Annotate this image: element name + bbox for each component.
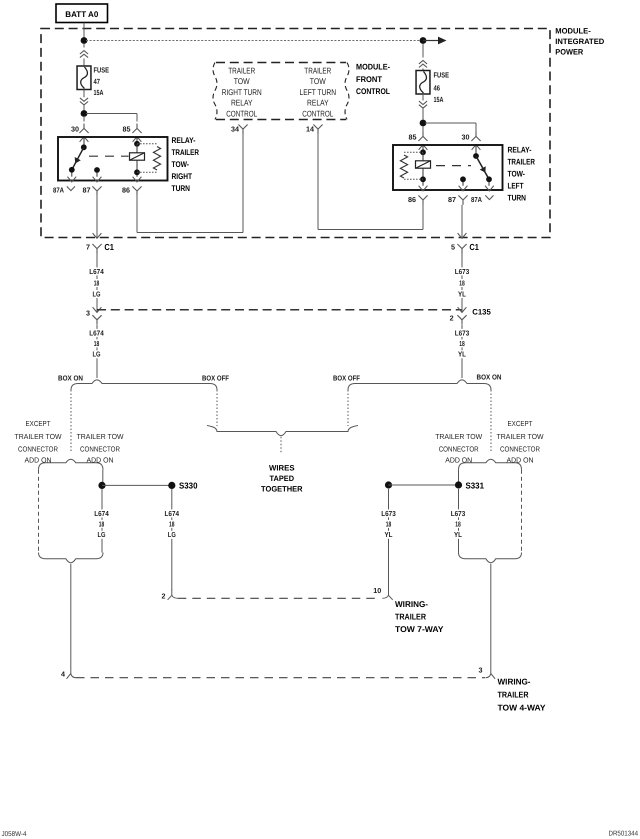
- splice junction dot (left of S331): [385, 481, 392, 488]
- svg-text:TOW-: TOW-: [508, 170, 526, 179]
- relay K2 pin 87 contact dot: [460, 176, 466, 182]
- wire branch BOX ON right dashed: [490, 390, 492, 453]
- relay K2 switch arm with motion arrowhead: [476, 156, 489, 179]
- wire label L673 18 YL (S331 branch): [450, 509, 467, 539]
- wire below fuse 47: [83, 90, 85, 98]
- wire: [83, 105, 85, 113]
- wire split left (BOX ON / BOX OFF branch): [71, 380, 217, 390]
- connector fork C135 cavity 2: [457, 315, 466, 325]
- svg-text:TRAILER: TRAILER: [228, 65, 255, 75]
- svg-text:15A: 15A: [434, 95, 444, 104]
- svg-text:CONNECTOR: CONNECTOR: [439, 445, 479, 454]
- relay K2 body box (trailer tow left turn): [393, 145, 503, 190]
- pin label 86 (left relay): [122, 185, 130, 194]
- node B junction dot: [420, 37, 427, 44]
- wire node A down to fuse 47: [83, 44, 85, 48]
- wire label L673 18 YL (lower right): [454, 328, 471, 358]
- pin 86 exit arrow: [133, 175, 142, 182]
- svg-text:WIRING-: WIRING-: [395, 599, 428, 609]
- wire relay K1 pin 87 down to C1: [96, 196, 98, 238]
- svg-text:2: 2: [450, 313, 454, 322]
- svg-text:L674: L674: [165, 509, 180, 518]
- wire branch BOX OFF left dashed: [216, 390, 218, 426]
- wire node B down to fuse 46: [422, 44, 424, 58]
- svg-text:WIRES: WIRES: [269, 464, 295, 473]
- wire coil bottom: [136, 160, 138, 172]
- svg-text:BOX OFF: BOX OFF: [333, 373, 361, 382]
- svg-text:LG: LG: [98, 530, 106, 539]
- svg-text:TRAILER TOW: TRAILER TOW: [77, 432, 124, 441]
- in-line connector chevrons below fuse 46: [419, 101, 427, 108]
- pin label 3 (4-way): [479, 666, 483, 675]
- fuse F46 symbol: [416, 71, 430, 95]
- svg-text:18: 18: [94, 339, 100, 348]
- svg-text:LEFT: LEFT: [508, 182, 524, 191]
- pin label 7: [86, 242, 90, 251]
- connector label C1 (left): [104, 242, 114, 252]
- wire except-branch dashed (left): [38, 470, 40, 553]
- svg-text:BOX OFF: BOX OFF: [202, 373, 230, 382]
- svg-text:TOW 4-WAY: TOW 4-WAY: [498, 703, 546, 713]
- pin label 86 (right relay): [408, 195, 416, 204]
- label WIRES TAPED TOGETHER: [261, 464, 303, 494]
- node D junction dot below fuse 46: [420, 120, 427, 127]
- svg-text:L674: L674: [94, 509, 109, 518]
- label BOX OFF (left): [202, 373, 230, 382]
- wire branch BOX ON left dashed: [70, 390, 72, 453]
- relay K2 mechanical linkage dashed line: [436, 165, 471, 167]
- connector fork at left relay pin 30: [79, 124, 88, 134]
- pin label 87A (right relay): [471, 195, 482, 204]
- connector fork C1 cavity 7: [92, 244, 101, 254]
- pin 87A exit arrow (right relay): [485, 182, 494, 191]
- connector fork at module-front pin 34: [238, 125, 247, 135]
- relay K1 body box (trailer tow right turn): [58, 137, 168, 181]
- wire to splice S330: [101, 470, 104, 486]
- wire below left splice dot to merge: [101, 489, 103, 553]
- svg-text:YL: YL: [385, 530, 394, 539]
- wire: [422, 108, 424, 120]
- svg-text:FUSE: FUSE: [94, 65, 110, 74]
- connector C135 crossing arrow (left): [93, 305, 102, 313]
- svg-text:L674: L674: [89, 267, 104, 276]
- svg-text:87A: 87A: [471, 195, 482, 204]
- svg-text:POWER: POWER: [555, 48, 583, 57]
- wire branch node D to pin 30 drop: [425, 123, 476, 132]
- fuse F47 symbol: [77, 66, 91, 90]
- splice label S330: [179, 481, 198, 491]
- svg-text:RELAY: RELAY: [231, 98, 253, 108]
- wire: [83, 59, 85, 67]
- svg-text:L673: L673: [455, 328, 470, 337]
- svg-text:18: 18: [94, 278, 100, 287]
- svg-text:RELAY-: RELAY-: [172, 136, 196, 145]
- label MODULE-INTEGRATED POWER: [555, 27, 604, 57]
- splice S330 dot: [168, 482, 175, 489]
- svg-text:87: 87: [448, 195, 456, 204]
- wire right column C1 to C135: [461, 254, 463, 305]
- wire S331 left dot down to 7-way: [388, 489, 390, 590]
- wire label L674 18 LG (splice branch left): [93, 509, 110, 539]
- in-line connector chevrons above fuse 47: [80, 51, 88, 58]
- svg-text:YL: YL: [454, 530, 463, 539]
- svg-text:TOW 7-WAY: TOW 7-WAY: [395, 624, 444, 634]
- wire pin 14 to relay K2 pin 86: [318, 134, 423, 230]
- connector fork at right relay pin 87: [458, 195, 467, 205]
- wire relay K2 pin 87 down to C1: [461, 205, 463, 238]
- splice label S331: [466, 480, 485, 490]
- relay K2 suppression resistor connections: [404, 152, 423, 179]
- svg-text:87: 87: [83, 185, 91, 194]
- node C junction dot below fuse 47: [81, 110, 88, 117]
- pin label 34: [231, 125, 239, 134]
- pin 87 exit arrow: [93, 173, 102, 182]
- svg-text:C135: C135: [472, 308, 491, 317]
- relay K1 mechanical linkage dashed line: [89, 155, 129, 157]
- wire BATT A0 to node A: [83, 23, 85, 41]
- label BOX ON (left): [58, 373, 83, 382]
- pin label 10 (7-way): [373, 586, 381, 595]
- svg-text:L673: L673: [381, 509, 396, 518]
- svg-text:DR501344: DR501344: [609, 831, 639, 838]
- relay K2 switch 87A contact dot: [486, 176, 492, 182]
- connector label C135: [472, 308, 491, 317]
- wire below fuse 46: [422, 94, 424, 101]
- wire merge tail down to 4-way (right): [490, 564, 492, 674]
- svg-text:S331: S331: [466, 480, 485, 490]
- svg-text:WIRING-: WIRING-: [498, 677, 531, 687]
- pin 87 exit arrow (right relay): [459, 182, 468, 191]
- svg-text:YL: YL: [458, 350, 467, 359]
- wire split left lower: [39, 459, 104, 470]
- wire between S331 splice dots: [389, 484, 458, 486]
- wire coil bottom: [422, 168, 424, 179]
- svg-text:S330: S330: [179, 481, 198, 491]
- pin 30 entry arrow into relay: [80, 137, 89, 147]
- pin 86 exit arrow (right relay): [419, 182, 428, 191]
- wire pin 34 to relay K1 pin 86: [137, 134, 243, 233]
- net label TRAILER TOW RIGHT TURN RELAY CONTROL: [222, 65, 262, 118]
- relay K2 coil bottom dot: [420, 176, 426, 182]
- pin label 30 (right relay): [462, 133, 470, 142]
- relay K1 switch 87A contact dot: [69, 167, 75, 173]
- svg-text:87A: 87A: [53, 185, 64, 194]
- svg-text:CONNECTOR: CONNECTOR: [80, 445, 120, 454]
- svg-text:5: 5: [451, 242, 455, 251]
- svg-text:3: 3: [479, 666, 483, 675]
- label EXCEPT TRAILER TOW CONNECTOR ADD ON (right): [497, 419, 544, 465]
- pin label 87A (left relay): [53, 185, 64, 194]
- pin 85 entry arrow into relay: [419, 145, 428, 153]
- pin 87A exit arrow: [67, 173, 76, 182]
- svg-text:LG: LG: [168, 530, 176, 539]
- connector C1 crossing arrow (left): [93, 233, 102, 238]
- pin label 87 (left relay): [83, 185, 91, 194]
- label EXCEPT TRAILER TOW CONNECTOR ADD ON (left): [15, 419, 62, 465]
- wire between splice dots: [102, 484, 170, 486]
- wire fork into 4-way pin 4: [67, 674, 77, 679]
- svg-text:BOX ON: BOX ON: [477, 373, 502, 382]
- svg-text:L673: L673: [455, 267, 470, 276]
- connector fork C1 cavity 5: [457, 244, 466, 254]
- svg-text:L674: L674: [89, 328, 104, 337]
- wire L674 segment C1 to C135: [96, 254, 98, 305]
- svg-text:RELAY-: RELAY-: [508, 146, 532, 155]
- svg-text:TRAILER: TRAILER: [304, 65, 331, 75]
- in-line connector chevrons above fuse 46: [419, 61, 427, 68]
- pin label 30 (left relay): [71, 125, 79, 134]
- svg-text:BATT A0: BATT A0: [65, 10, 98, 19]
- svg-text:J058W-4: J058W-4: [2, 831, 27, 838]
- connector fork at right relay pin 30: [471, 132, 480, 142]
- relay K1 suppression resistor zigzag: [153, 147, 160, 171]
- unconnected chevron at pin 87A (right relay): [485, 195, 493, 199]
- label FUSE 47 15A: [94, 65, 110, 97]
- pin 30 entry arrow into relay: [472, 145, 481, 156]
- connector fork C135 cavity 3: [92, 315, 101, 325]
- label RELAY-TRAILER TOW-LEFT TURN: [508, 146, 536, 203]
- svg-text:TRAILER: TRAILER: [395, 612, 426, 622]
- connector trailer tow 4-way dashed line: [76, 677, 485, 679]
- connector C135 dashed line: [97, 309, 462, 311]
- connector C135 crossing arrow (right): [458, 305, 467, 313]
- pin 85 entry arrow into relay: [133, 137, 142, 144]
- svg-text:CONNECTOR: CONNECTOR: [18, 445, 58, 454]
- wire L674 segment C135 to split: [96, 325, 98, 378]
- svg-text:TRAILER: TRAILER: [498, 690, 529, 700]
- svg-text:TAPED: TAPED: [270, 474, 295, 483]
- svg-text:CONTROL: CONTROL: [356, 87, 390, 96]
- svg-text:TRAILER TOW: TRAILER TOW: [15, 432, 62, 441]
- svg-text:RELAY: RELAY: [307, 98, 329, 108]
- svg-text:86: 86: [408, 195, 416, 204]
- svg-text:34: 34: [231, 125, 239, 134]
- wire merge brace right: [459, 553, 522, 563]
- svg-text:TURN: TURN: [172, 184, 191, 193]
- svg-text:LEFT TURN: LEFT TURN: [300, 87, 337, 97]
- relay K1 switch arm with motion arrowhead: [72, 147, 84, 170]
- pin label 2: [450, 313, 454, 322]
- svg-text:7: 7: [86, 242, 90, 251]
- svg-text:4: 4: [61, 670, 65, 679]
- svg-text:30: 30: [71, 125, 79, 134]
- svg-text:EXCEPT: EXCEPT: [508, 419, 533, 428]
- module-integrated power dashed boundary box: [41, 29, 550, 238]
- wire branch node C to pin 85 drop: [86, 114, 137, 122]
- wire coil top: [422, 152, 424, 161]
- connector fork at right relay pin 85: [418, 132, 427, 142]
- in-line connector chevrons below fuse 47: [80, 98, 88, 105]
- connector fork at left relay pin 85: [132, 124, 141, 134]
- svg-text:85: 85: [409, 133, 417, 142]
- wire S330 down to 7-way: [171, 489, 173, 590]
- connector C1 crossing arrow (right): [458, 233, 467, 238]
- label RELAY-TRAILER TOW-RIGHT TURN: [172, 136, 200, 193]
- wire split right (BOX OFF / BOX ON branch): [348, 380, 491, 390]
- label WIRING-TRAILER TOW 7-WAY: [395, 599, 444, 634]
- svg-text:18: 18: [169, 519, 175, 528]
- wire label L674 18 LG (upper left): [88, 267, 105, 299]
- svg-text:TRAILER: TRAILER: [172, 148, 200, 157]
- wire below S331 to merge: [458, 489, 460, 553]
- pin label 3: [86, 309, 90, 318]
- wires taped together brace: [207, 426, 358, 436]
- svg-text:TOGETHER: TOGETHER: [261, 485, 303, 494]
- wire node C down to relay pin 30: [83, 116, 85, 122]
- label BOX OFF (right): [333, 373, 361, 382]
- svg-text:TOW: TOW: [234, 76, 250, 86]
- svg-text:EXCEPT: EXCEPT: [26, 419, 51, 428]
- wire bus node A to node B: [86, 40, 421, 42]
- relay K1 switch common contact dot: [81, 144, 87, 150]
- svg-text:CONTROL: CONTROL: [302, 108, 333, 118]
- wire coil top: [136, 144, 138, 153]
- svg-text:2: 2: [162, 592, 166, 601]
- splice junction dot (left of S330): [98, 482, 105, 489]
- svg-text:15A: 15A: [94, 88, 104, 97]
- svg-text:3: 3: [86, 309, 90, 318]
- svg-text:L673: L673: [451, 509, 466, 518]
- pin label 85 (left relay): [123, 125, 131, 134]
- wire brace tail: [280, 437, 282, 453]
- relay K1 coil bottom dot: [134, 169, 140, 175]
- connector trailer tow 7-way dashed line: [178, 597, 381, 599]
- connector fork at left relay pin 86: [132, 186, 141, 196]
- module-front control torn dashed box: [213, 63, 349, 120]
- svg-text:C1: C1: [469, 242, 479, 252]
- wire except-branch dashed (right): [521, 470, 523, 553]
- wire merge tail down to 4-way: [70, 564, 72, 674]
- label BOX ON (right): [477, 373, 502, 382]
- wire label L673 18 YL (left S331 drop): [380, 509, 397, 539]
- svg-text:RIGHT TURN: RIGHT TURN: [222, 87, 262, 97]
- svg-text:47: 47: [94, 77, 101, 86]
- pin label 85 (right relay): [409, 133, 417, 142]
- label WIRING-TRAILER TOW 4-WAY: [498, 677, 546, 713]
- pin label 4 (4-way): [61, 670, 65, 679]
- relay K2 coil symbol: [416, 161, 431, 168]
- svg-text:FRONT: FRONT: [356, 75, 382, 84]
- svg-text:CONTROL: CONTROL: [226, 108, 257, 118]
- wire fork into 4-way pin 3: [486, 674, 496, 679]
- svg-text:18: 18: [386, 519, 392, 528]
- svg-text:TURN: TURN: [508, 194, 527, 203]
- svg-text:TRAILER: TRAILER: [508, 158, 536, 167]
- svg-text:LG: LG: [93, 289, 101, 298]
- wire right column C135 to split: [461, 325, 463, 378]
- wire label L674 18 LG (lower left): [88, 328, 105, 358]
- label TRAILER TOW CONNECTOR ADD ON (left): [77, 432, 124, 465]
- wire fork into 7-way pin 2: [168, 589, 178, 600]
- svg-text:18: 18: [459, 278, 465, 287]
- svg-text:TOW: TOW: [310, 76, 326, 86]
- svg-text:18: 18: [99, 519, 105, 528]
- relay K1 pin 87 contact dot: [94, 167, 100, 173]
- pin label 87 (right relay): [448, 195, 456, 204]
- connector fork at module-front pin 14: [313, 125, 322, 135]
- svg-text:C1: C1: [104, 242, 114, 252]
- relay K2 coil top dot: [420, 149, 426, 155]
- unconnected chevron at pin 87A: [67, 186, 75, 190]
- connector label C1 (right): [469, 242, 479, 252]
- svg-text:TOW-: TOW-: [172, 160, 190, 169]
- label TRAILER TOW CONNECTOR ADD ON (right): [435, 432, 482, 465]
- wire split right lower: [459, 459, 522, 470]
- svg-text:TRAILER TOW: TRAILER TOW: [497, 432, 544, 441]
- svg-text:INTEGRATED: INTEGRATED: [555, 37, 604, 46]
- svg-text:RIGHT: RIGHT: [172, 172, 193, 181]
- power source node BATT A0 box: [56, 4, 108, 23]
- pin label 14: [306, 125, 314, 134]
- relay K2 suppression resistor zigzag: [400, 155, 407, 178]
- svg-text:FUSE: FUSE: [434, 71, 450, 80]
- relay K1 coil symbol: [130, 153, 145, 160]
- svg-text:46: 46: [434, 83, 441, 92]
- svg-text:BOX ON: BOX ON: [58, 373, 83, 382]
- wire node D down to relay pin 85: [422, 126, 424, 132]
- wire merge brace left: [39, 553, 104, 563]
- wire to splice S331: [458, 470, 460, 482]
- wire fork into 7-way pin 10: [382, 589, 392, 600]
- wire arrow continuing feed right of node B: [423, 37, 447, 45]
- svg-text:30: 30: [462, 133, 470, 142]
- svg-text:TRAILER TOW: TRAILER TOW: [435, 432, 482, 441]
- svg-text:86: 86: [122, 185, 130, 194]
- svg-text:10: 10: [373, 586, 381, 595]
- relay K2 switch common contact dot: [473, 153, 479, 159]
- svg-text:85: 85: [123, 125, 131, 134]
- footer sheet code J058W-4: [2, 831, 27, 838]
- wire: [422, 69, 424, 71]
- relay K1 suppression resistor connections: [137, 144, 157, 173]
- svg-text:LG: LG: [93, 350, 101, 359]
- svg-text:MODULE-: MODULE-: [356, 63, 390, 72]
- footer drawing number DR501344: [609, 831, 639, 838]
- node A junction dot: [81, 37, 88, 44]
- svg-text:MODULE-: MODULE-: [555, 27, 591, 36]
- svg-text:18: 18: [455, 519, 461, 528]
- connector fork at right relay pin 86: [418, 195, 427, 205]
- svg-text:14: 14: [306, 125, 314, 134]
- splice S331 dot: [455, 481, 462, 488]
- label FUSE 46 15A: [434, 71, 450, 105]
- wire branch BOX OFF right dashed: [347, 390, 349, 426]
- wire label L674 18 LG (S330 drop): [164, 509, 181, 539]
- svg-text:YL: YL: [458, 289, 467, 298]
- svg-text:CONNECTOR: CONNECTOR: [500, 445, 540, 454]
- net label TRAILER TOW LEFT TURN RELAY CONTROL: [300, 65, 337, 118]
- label MODULE-FRONT CONTROL: [356, 63, 390, 97]
- connector fork at left relay pin 87: [92, 186, 101, 196]
- svg-text:18: 18: [459, 339, 465, 348]
- pin label 5: [451, 242, 455, 251]
- wire label L673 18 YL (upper right): [454, 267, 471, 299]
- pin label 2 (7-way): [162, 592, 166, 601]
- relay K1 coil top dot: [134, 141, 140, 147]
